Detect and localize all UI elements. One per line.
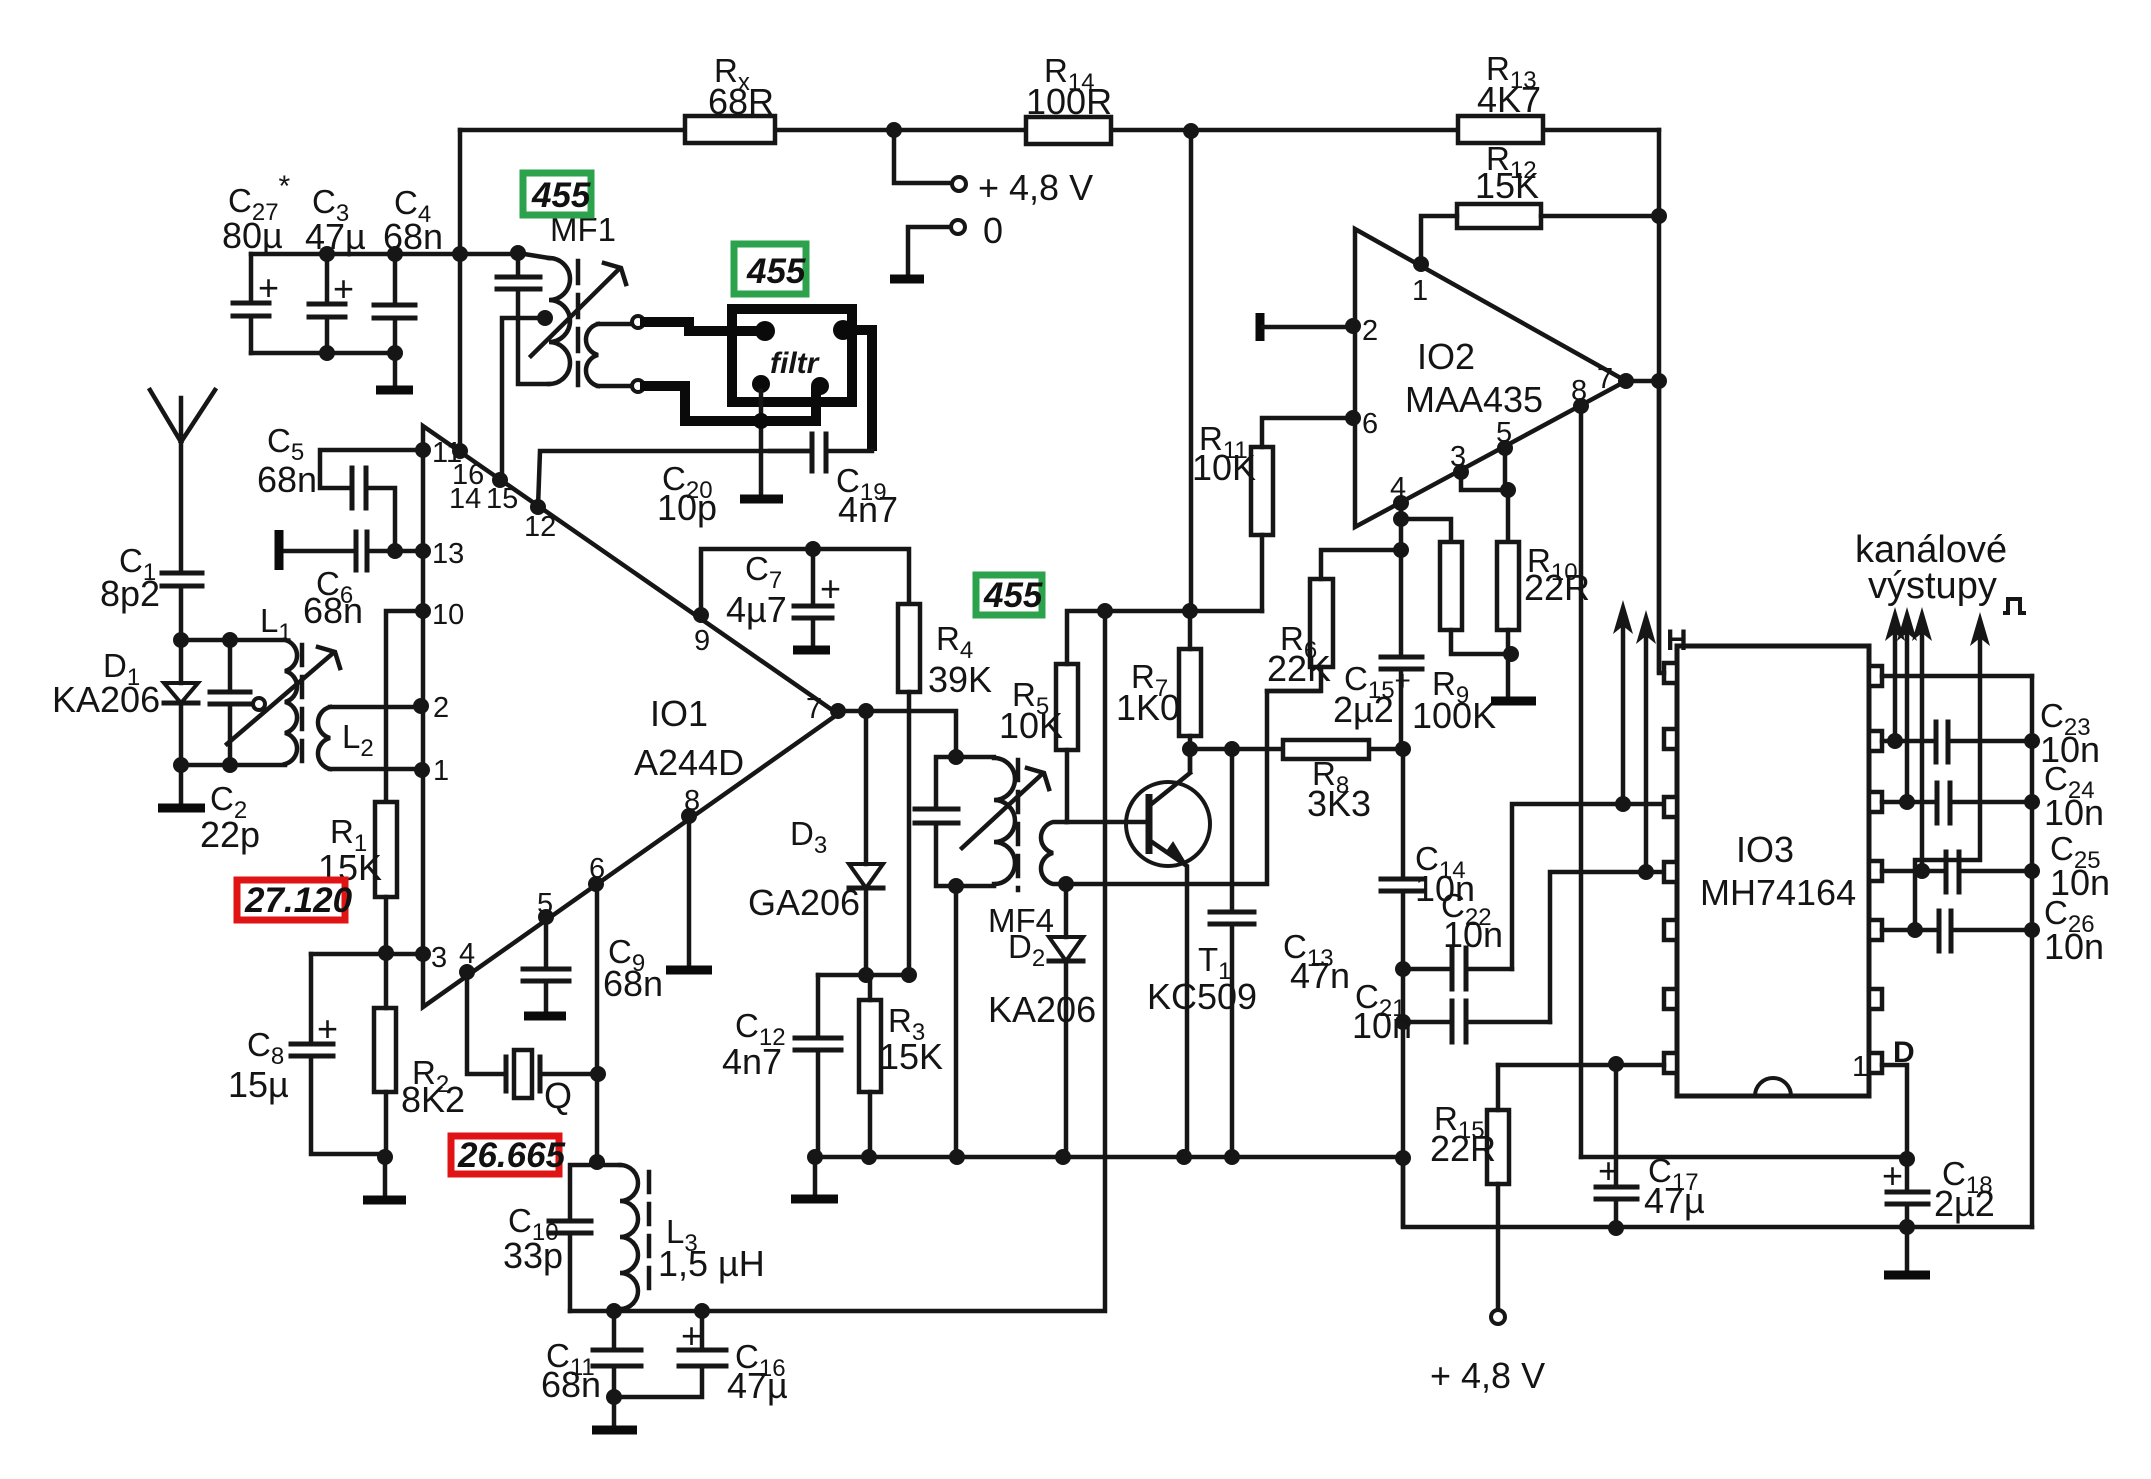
- svg-text:+: +: [681, 1315, 702, 1356]
- svg-text:26.665: 26.665: [457, 1136, 566, 1175]
- green box 455 mid: [976, 575, 1042, 615]
- svg-text:47µ: 47µ: [1644, 1180, 1705, 1221]
- svg-text:+: +: [1882, 1155, 1903, 1196]
- inductor L1: [285, 640, 297, 764]
- svg-text:68n: 68n: [303, 590, 363, 631]
- IC IO3 MH74164: [1677, 646, 1869, 1096]
- red box 26.665: [451, 1136, 559, 1174]
- capacitor C16: [614, 1311, 702, 1397]
- svg-text:MH74164: MH74164: [1700, 872, 1856, 913]
- svg-text:1: 1: [1852, 1051, 1868, 1083]
- wire ground rail y=1158: [815, 1155, 1403, 1160]
- svg-text:8K2: 8K2: [401, 1079, 465, 1120]
- node +4.8V bottom terminal: [1491, 1310, 1505, 1324]
- capacitor C3: [325, 254, 330, 353]
- svg-text:MAA435: MAA435: [1405, 379, 1543, 420]
- svg-text:8: 8: [1571, 375, 1587, 407]
- wire MF1 tap to IO1 pin15: [502, 318, 545, 480]
- wire MF4 sec top to T1 base: [1066, 820, 1149, 825]
- wire IO1 pin12 to C19: [538, 451, 812, 507]
- svg-text:15: 15: [486, 483, 518, 515]
- svg-text:10p: 10p: [657, 487, 717, 528]
- wire pin3 rail: [311, 953, 423, 954]
- capacitor C5: [320, 450, 423, 546]
- svg-text:1,5 µH: 1,5 µH: [658, 1243, 765, 1284]
- svg-text:+ 4,8 V: + 4,8 V: [1430, 1355, 1545, 1396]
- filtr block: [732, 309, 852, 402]
- wire H clock line IO2 out to IO3 pin1: [1659, 381, 1664, 673]
- svg-text:4µ7: 4µ7: [726, 589, 787, 630]
- MF4 core: [1016, 760, 1021, 890]
- ground under filtr: [740, 495, 783, 504]
- capacitor C10: [549, 1221, 591, 1233]
- arrow outputs left pair: [1621, 618, 1626, 804]
- svg-text:7: 7: [1597, 363, 1613, 395]
- svg-text:100K: 100K: [1412, 695, 1496, 736]
- transformer MF1 secondary coil: [586, 324, 598, 386]
- resistor R3: [859, 1000, 881, 1092]
- ground under C18: [1905, 1227, 1910, 1272]
- svg-text:10K: 10K: [1192, 447, 1256, 488]
- svg-text:3: 3: [1450, 441, 1466, 473]
- wire IO1 pin10 to L2 top: [386, 611, 423, 802]
- svg-text:3K3: 3K3: [1307, 783, 1371, 824]
- wire x=1190 from top bus: [1189, 131, 1194, 611]
- resistor R8: [1283, 740, 1369, 759]
- svg-text:455: 455: [746, 252, 806, 291]
- capacitor C25: [1882, 869, 2032, 874]
- wire thick MF1 to filtr bottom: [645, 386, 816, 421]
- svg-text:IO1: IO1: [650, 693, 708, 734]
- svg-text:4: 4: [459, 938, 475, 970]
- wire C21 to IO3 pin4: [1550, 872, 1665, 1022]
- resistor R5: [1056, 664, 1078, 750]
- svg-text:22p: 22p: [200, 814, 260, 855]
- L3 core: [647, 1172, 652, 1294]
- resistor R7: [1179, 649, 1201, 736]
- wire output bus right: [2030, 676, 2035, 1227]
- svg-text:6: 6: [1362, 408, 1378, 440]
- junction right of R14: [1183, 123, 1199, 139]
- resistor R12: [1457, 204, 1541, 228]
- resistor R9: [1440, 542, 1462, 630]
- ground under R10: [1491, 697, 1536, 706]
- ground on rail: [813, 1157, 818, 1197]
- svg-text:10K: 10K: [999, 705, 1063, 746]
- MF4 trimmer arrow: [962, 775, 1041, 848]
- diode D1: [179, 640, 184, 765]
- ground at 0 terminal: [890, 275, 924, 284]
- svg-text:4: 4: [1390, 472, 1406, 504]
- svg-text:4n7: 4n7: [838, 489, 898, 530]
- svg-text:22R: 22R: [1524, 567, 1590, 608]
- MF1 trimmer arrow: [531, 270, 618, 356]
- wire main vertical x=460 from bus to IO1 pin16: [458, 130, 463, 451]
- svg-text:68n: 68n: [603, 963, 663, 1004]
- svg-text:455: 455: [983, 576, 1043, 615]
- IC IO2 MAA435 triangle: [1355, 229, 1626, 527]
- L3 tank top node: [570, 1165, 620, 1311]
- svg-text:2µ2: 2µ2: [1333, 689, 1394, 730]
- MF1 core: [576, 261, 581, 391]
- resistor R1: [375, 802, 397, 897]
- capacitor C21: [1395, 1014, 1411, 1030]
- transformer MF4 secondary: [1041, 822, 1066, 884]
- svg-text:7: 7: [806, 693, 822, 725]
- svg-text:KA206: KA206: [988, 989, 1096, 1030]
- wire IO3 data pin D to C18 node: [1882, 1065, 1907, 1159]
- svg-text:IO3: IO3: [1736, 829, 1794, 870]
- svg-text:1: 1: [1412, 275, 1428, 307]
- svg-text:6: 6: [589, 853, 605, 885]
- wire IO3 right pin2 to bus: [1882, 674, 2032, 679]
- node +4.8V top terminal: [894, 130, 951, 183]
- resistor R2: [374, 1008, 396, 1092]
- transformer MF1 primary coil: [518, 253, 549, 258]
- wire D3 R4 R3 junction: [818, 973, 909, 978]
- capacitor C26: [1882, 928, 2032, 933]
- ground under C7: [793, 646, 830, 655]
- svg-text:14: 14: [449, 483, 481, 515]
- node antenna tank bottom: [181, 763, 285, 768]
- IO3 right pin notches: [1869, 666, 1882, 686]
- crystal Q: [506, 1057, 540, 1091]
- IO1 pin dots and numbers: [415, 442, 431, 458]
- wire filtr bottom-left pin to ground: [759, 391, 764, 497]
- svg-text:+ 4,8 V: + 4,8 V: [978, 167, 1093, 208]
- svg-text:9: 9: [694, 625, 710, 657]
- capacitor C2 tank cap: [228, 640, 233, 765]
- wire IO2 pin7 to right bus: [1626, 379, 1659, 384]
- svg-text:47µ: 47µ: [727, 1365, 788, 1406]
- node antenna tank top: [173, 632, 189, 648]
- capacitor C6: [284, 549, 423, 554]
- resistor R6: [1310, 579, 1333, 667]
- resistor R4: [898, 604, 920, 692]
- wire collector rail R8: [1188, 747, 1403, 752]
- wire MF4 sec bottom to R6 chain: [1066, 691, 1319, 884]
- ground under C11: [612, 1397, 617, 1428]
- capacitor C7: [811, 549, 816, 648]
- svg-text:15K: 15K: [1475, 165, 1539, 206]
- capacitor C12: [816, 975, 821, 1157]
- svg-text:IO2: IO2: [1417, 336, 1475, 377]
- resistor R13: [1458, 116, 1543, 143]
- ground under C4: [393, 353, 398, 388]
- svg-text:15µ: 15µ: [228, 1064, 289, 1105]
- capacitor C11: [612, 1311, 617, 1397]
- node MF1 tap: [537, 310, 553, 326]
- antenna: [150, 390, 215, 573]
- capacitor C14: [1401, 749, 1406, 1226]
- capacitor C17: [1614, 1064, 1619, 1228]
- svg-text:filtr: filtr: [770, 347, 821, 380]
- MF1 secondary terminals: [632, 316, 644, 328]
- wire thick filtr right pin to C19: [843, 330, 872, 446]
- wire pin4 to R9: [1401, 519, 1451, 542]
- svg-text:8p2: 8p2: [100, 573, 160, 614]
- svg-text:2: 2: [1362, 315, 1378, 347]
- wire IO1 pin7 output: [838, 711, 956, 757]
- diode D3: [864, 711, 869, 975]
- svg-text:4K7: 4K7: [1477, 79, 1541, 120]
- node 0 terminal: [951, 220, 965, 234]
- svg-text:455: 455: [531, 176, 591, 215]
- resistor R11: [1251, 447, 1273, 535]
- svg-text:A244D: A244D: [634, 742, 744, 783]
- svg-text:KC509: KC509: [1147, 976, 1257, 1017]
- svg-text:KA206: KA206: [52, 679, 160, 720]
- wire thick MF1 to filtr top: [645, 322, 761, 331]
- wire R12 left lead to IO2 pin1: [1421, 216, 1457, 264]
- IO2 pin2 input terminal: [1256, 313, 1265, 341]
- red box 27.120: [237, 880, 345, 920]
- ground under IO1 pin8: [687, 816, 692, 968]
- resistor R15: [1487, 1110, 1509, 1184]
- capacitor C23: [1882, 739, 2032, 744]
- capacitor C27: [249, 254, 254, 353]
- svg-text:10n: 10n: [2044, 792, 2104, 833]
- capacitor C1: [162, 573, 202, 586]
- svg-text:1: 1: [433, 755, 449, 787]
- wire right bus x=1659: [1657, 130, 1662, 672]
- resistor R10: [1497, 542, 1519, 630]
- svg-text:+: +: [333, 268, 354, 309]
- L1 trimmer arrow: [227, 654, 332, 744]
- svg-text:8: 8: [684, 785, 700, 817]
- capacitor C9 under pin5: [544, 917, 549, 1014]
- wire IO2 pin8 down: [1579, 406, 1584, 1157]
- capacitor C19: [812, 434, 826, 471]
- capacitor C4: [393, 254, 398, 353]
- green box 455 at filtr: [734, 244, 806, 294]
- svg-text:47µ: 47µ: [305, 216, 366, 257]
- wire cap rails: [251, 254, 518, 353]
- inductor L2: [318, 707, 330, 769]
- svg-text:10n: 10n: [1352, 1005, 1412, 1046]
- svg-text:+: +: [317, 1008, 338, 1049]
- wire C22 to IO3 pin3: [1512, 804, 1665, 969]
- transformer MF4 primary: [936, 757, 994, 886]
- svg-text:1K0: 1K0: [1116, 687, 1180, 728]
- svg-text:10n: 10n: [2044, 926, 2104, 967]
- svg-text:4n7: 4n7: [722, 1041, 782, 1082]
- svg-text:Q: Q: [544, 1075, 572, 1116]
- wire R12 right lead: [1541, 214, 1659, 219]
- svg-text:100R: 100R: [1026, 81, 1112, 122]
- svg-text:výstupy: výstupy: [1868, 565, 1997, 607]
- wire C7 top rail pin9: [701, 549, 909, 615]
- capacitor MF1 tuning cap: [518, 253, 549, 384]
- C6 input terminal bar: [275, 530, 284, 570]
- svg-text:39K: 39K: [928, 659, 992, 700]
- svg-text:68R: 68R: [708, 81, 774, 122]
- svg-text:GA206: GA206: [748, 882, 860, 923]
- capacitor C13: [1230, 749, 1235, 1157]
- svg-text:10: 10: [432, 599, 464, 631]
- IO3 left pin notches: [1664, 663, 1677, 683]
- IO2 pins: [1413, 256, 1429, 272]
- wire IO1 pin4 to crystal: [467, 972, 506, 1074]
- inductor L3: [620, 1165, 638, 1309]
- svg-text:68n: 68n: [257, 459, 317, 500]
- ground under R2: [383, 1157, 388, 1198]
- svg-text:5: 5: [1496, 417, 1512, 449]
- L1 core: [300, 645, 305, 768]
- capacitor C18: [1905, 1159, 1910, 1227]
- capacitor C15: [1399, 503, 1404, 749]
- svg-text:2µ2: 2µ2: [1934, 1183, 1995, 1224]
- svg-text:22R: 22R: [1430, 1128, 1496, 1169]
- pulse symbol: [2003, 599, 2026, 613]
- svg-text:0: 0: [983, 210, 1003, 251]
- svg-text:10n: 10n: [1443, 914, 1503, 955]
- wire pin8 line to C18: [1581, 1155, 1907, 1160]
- svg-text:27.120: 27.120: [244, 881, 353, 920]
- svg-text:80µ: 80µ: [222, 215, 283, 256]
- svg-text:3: 3: [431, 942, 447, 974]
- resistor Rx: [685, 116, 775, 143]
- wire IO3 pin7 R15 C17: [1498, 1063, 1664, 1068]
- svg-text:68n: 68n: [541, 1364, 601, 1405]
- wire pin3 pin5 join to R10: [1461, 448, 1508, 542]
- wire bottom ground rail: [1403, 1158, 2032, 1227]
- svg-text:H: H: [1666, 624, 1688, 657]
- wire IO1 pin6 down to oscillator: [595, 884, 600, 1162]
- IC IO1 A244D triangle: [423, 426, 838, 1007]
- wire MF4 primary bottom to ground rail: [954, 886, 959, 1157]
- ground under D1: [179, 765, 184, 806]
- L1 tap terminal: [253, 698, 265, 710]
- svg-text:13: 13: [432, 538, 464, 570]
- capacitor C24: [1882, 800, 2032, 805]
- svg-text:12: 12: [524, 511, 556, 543]
- capacitor C8: [311, 954, 384, 1154]
- resistor R14: [1026, 117, 1111, 144]
- wire top bus: [460, 128, 1659, 133]
- capacitor C22: [1395, 961, 1411, 977]
- svg-text:+: +: [258, 267, 279, 308]
- wire tank bottom rail: [570, 611, 1105, 1311]
- transistor T1: [1126, 782, 1210, 866]
- arrow channel outputs: [1893, 625, 1898, 741]
- diode D2: [1064, 884, 1069, 1157]
- svg-text:47n: 47n: [1290, 955, 1350, 996]
- svg-text:15K: 15K: [879, 1036, 943, 1077]
- svg-text:2: 2: [433, 692, 449, 724]
- green box 455 at MF1: [523, 173, 591, 215]
- svg-text:33p: 33p: [503, 1235, 563, 1276]
- svg-text:+: +: [820, 568, 841, 609]
